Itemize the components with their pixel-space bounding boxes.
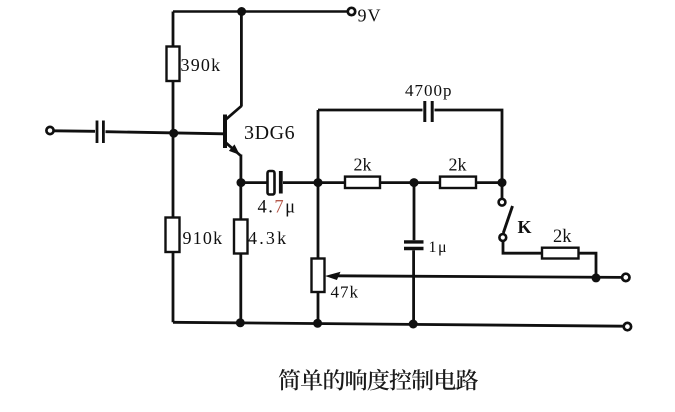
label 4.7u [258, 198, 297, 218]
resistor R4 2k [345, 177, 380, 188]
wire R4 to node B [380, 181, 414, 184]
junction R3 to ground rail [236, 318, 245, 327]
junction C4 to ground rail [409, 320, 418, 329]
wire C4 to ground rail [412, 250, 415, 323]
resistor R3 4.3k [234, 220, 248, 254]
label 910k [183, 228, 224, 248]
wire vertical node A up to C3 branch and down to RP1 [317, 110, 320, 259]
wire node B to R5 [414, 181, 440, 184]
svg-text:2k: 2k [354, 155, 372, 175]
svg-text:4.3k: 4.3k [248, 228, 288, 248]
label 4.3k [248, 228, 288, 248]
terminal input [46, 127, 53, 134]
label 4700p [405, 81, 453, 100]
wire base node to R3 via emitter branch: R3 top lead [239, 183, 242, 220]
wire C3 branch left [318, 109, 423, 112]
svg-text:3DG6: 3DG6 [244, 122, 295, 144]
wire collector vertical [240, 12, 243, 107]
node A junction [314, 178, 323, 187]
node C junction [498, 178, 507, 187]
terminal output bottom [624, 323, 631, 330]
svg-text:4.7μ: 4.7μ [258, 198, 297, 218]
wire left vertical R2 to ground rail [172, 252, 175, 322]
terminal 9V supply [348, 8, 355, 15]
svg-text:2k: 2k [553, 227, 572, 247]
terminal output top [622, 274, 629, 281]
capacitor C3 4700p [425, 101, 432, 122]
capacitor input coupling [97, 121, 103, 144]
potentiometer RP1 47k [312, 259, 341, 293]
switch K [499, 186, 513, 241]
label 9V [358, 6, 382, 26]
wire RP1 bottom to ground rail [317, 292, 320, 323]
wire switch to R6 [503, 241, 542, 254]
wire R5 to node C [476, 181, 502, 184]
resistor R2 910k [166, 218, 180, 253]
junction collector to top rail [237, 7, 246, 16]
wire node A to R4 [318, 181, 345, 184]
svg-text:910k: 910k [183, 228, 224, 248]
svg-text:9V: 9V [358, 6, 382, 26]
label 2k (R4) [354, 155, 372, 175]
label 2k (R6) [553, 227, 572, 247]
node emitter junction [237, 178, 246, 187]
wire wiper output line [336, 276, 622, 278]
wire R6 to output line [579, 253, 597, 278]
label 3DG6 [244, 122, 295, 144]
resistor R5 2k [440, 177, 476, 188]
capacitor C4 1u [404, 242, 424, 249]
wire R3 bottom lead [239, 254, 242, 323]
resistor R1 390k [167, 47, 180, 82]
wire node B down to C4 [413, 183, 416, 241]
wire ground rail [173, 322, 623, 326]
label 1u [429, 239, 449, 256]
wire emitter vertical [239, 155, 242, 184]
label 47k [331, 283, 360, 302]
wire input to coupling capacitor [54, 129, 95, 132]
wire C3 branch right [435, 110, 503, 183]
node B junction [410, 178, 419, 187]
node base junction [169, 129, 178, 138]
svg-text:390k: 390k [181, 55, 222, 75]
label 2k (R5) [449, 155, 467, 175]
transistor Q1 3DG6 [225, 106, 241, 156]
wire coupling capacitor to base [106, 132, 224, 134]
resistor R6 2k [542, 248, 579, 259]
svg-text:4700p: 4700p [405, 81, 453, 100]
wire left vertical from R1 to R2 [172, 81, 175, 218]
capacitor C2 4.7u electrolytic [268, 171, 281, 195]
wire C2 to node A [283, 181, 318, 184]
label 390k [181, 55, 222, 75]
caption title 简单的响度控制电路 [279, 369, 478, 391]
junction RP1 to ground rail [313, 319, 322, 328]
svg-text:1μ: 1μ [429, 239, 449, 256]
node D junction [592, 273, 601, 282]
label K [518, 217, 532, 237]
wire left vertical from rail to R1 [172, 12, 175, 47]
wire emitter to C2 [241, 181, 267, 184]
svg-text:2k: 2k [449, 155, 467, 175]
svg-text:K: K [518, 217, 532, 237]
svg-text:47k: 47k [331, 283, 360, 302]
wire top supply rail [173, 10, 347, 13]
